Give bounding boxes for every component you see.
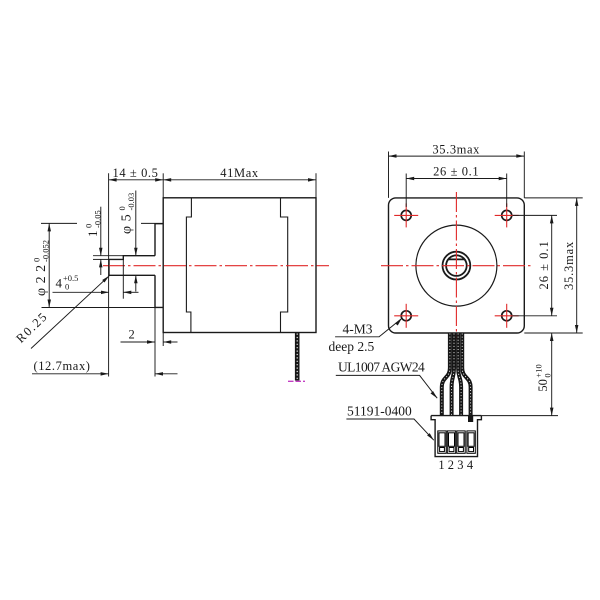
- svg-text:41Max: 41Max: [220, 166, 259, 180]
- svg-text:2: 2: [128, 327, 134, 341]
- ext 35.3 right bottom / 50 top: [524, 332, 582, 334]
- dim 1 upper tail: [100, 207, 102, 256]
- R0.25 text: [13, 309, 50, 346]
- R0.25 leader: [31, 276, 109, 349]
- svg-text:4-M3: 4-M3: [343, 321, 373, 336]
- connector 51191-0400: [431, 416, 481, 457]
- svg-text:3: 3: [457, 458, 463, 472]
- front view square: [389, 198, 525, 333]
- dim line 26 top: [406, 178, 507, 180]
- svg-text:0: 0: [543, 373, 553, 377]
- motor body outline (side view): [163, 198, 316, 333]
- svg-text:26 ± 0.1: 26 ± 0.1: [433, 165, 479, 179]
- ext 26 top: [405, 174, 407, 207]
- polarization tab: [468, 416, 473, 422]
- phi22 top ext segments: [41, 222, 77, 224]
- svg-text:14 ± 0.5: 14 ± 0.5: [112, 166, 158, 180]
- svg-text:0: 0: [65, 282, 69, 292]
- ext line flat top left: [93, 255, 123, 257]
- pin numbers: [438, 458, 474, 472]
- svg-text:(12.7max): (12.7max): [33, 359, 90, 373]
- ext 35.3 right top: [524, 197, 582, 199]
- svg-text:deep 2.5: deep 2.5: [329, 339, 375, 354]
- phi22 bottom ext: [42, 307, 156, 309]
- dim line 26 right: [551, 215, 553, 315]
- front view centerlines: [381, 192, 532, 339]
- dimension texts: [33, 142, 480, 372]
- svg-text:UL1007 AGW24: UL1007 AGW24: [338, 360, 425, 375]
- ext line body left bottom: [162, 333, 164, 347]
- ext line flat end: [122, 259, 124, 298]
- svg-text:1: 1: [85, 231, 100, 238]
- side view lead wire: [288, 333, 305, 382]
- ext line shaft tip: [108, 173, 110, 376]
- ext line boss face below: [154, 308, 156, 377]
- ext line body right top: [315, 173, 317, 198]
- shaft circle: [446, 255, 467, 276]
- terminal slots: [438, 431, 476, 453]
- 4-M3 leader: [335, 318, 402, 336]
- break mark magenta: [288, 380, 305, 382]
- mounting hole BR: [502, 311, 512, 321]
- 1 tolerance text: [84, 210, 103, 237]
- UL1007 leader: [336, 375, 437, 398]
- 35.3 right rotated: [562, 241, 576, 290]
- svg-text:4: 4: [467, 458, 474, 472]
- ext line flat step left: [93, 258, 109, 260]
- phi5 dim line lower: [135, 275, 137, 291]
- lead wires front view: [442, 333, 471, 415]
- svg-text:26 ± 0.1: 26 ± 0.1: [537, 240, 551, 289]
- svg-text:-0.03: -0.03: [126, 193, 136, 211]
- ext 35.3 top left: [388, 152, 390, 198]
- shaft outline: [109, 256, 155, 276]
- phi22 dim line: [48, 223, 50, 307]
- dim 4 left tail: [53, 291, 110, 293]
- hole cross BL: [394, 315, 418, 317]
- svg-text:51191-0400: 51191-0400: [347, 403, 412, 418]
- hole cross TR: [495, 214, 519, 216]
- ext 50 bottom: [481, 415, 558, 417]
- mounting hole TL: [401, 210, 411, 220]
- phi5 dim line upper: [135, 191, 137, 256]
- dim line 14 and 41: [109, 179, 316, 181]
- dim line 50: [551, 333, 553, 416]
- svg-text:φ5: φ5: [120, 210, 135, 234]
- mounting hole BL: [401, 311, 411, 321]
- mounting hole TR: [502, 210, 512, 220]
- ext 35.3 top right: [523, 152, 525, 198]
- hole cross TL: [394, 214, 418, 216]
- shaft flat chord: [448, 258, 465, 260]
- body left cap boundary: [186, 198, 191, 333]
- pilot boss phi22 outline: [155, 224, 163, 308]
- phi5 tolerance text: [117, 193, 136, 234]
- 50 tolerance rotated: [534, 364, 553, 391]
- svg-text:35.3max: 35.3max: [562, 241, 576, 290]
- ext line body left top: [162, 173, 164, 198]
- 51191 leader: [346, 419, 433, 440]
- svg-text:-0.052: -0.052: [41, 240, 51, 262]
- labels: [329, 321, 474, 472]
- hole cross BR: [495, 315, 519, 317]
- phi22 tolerance text: [32, 240, 51, 296]
- 4 tolerance text: [56, 273, 79, 292]
- dim 1 lower tail: [100, 259, 102, 275]
- svg-text:2: 2: [448, 458, 454, 472]
- body right cap boundary: [281, 198, 288, 333]
- svg-text:1: 1: [438, 458, 444, 472]
- svg-text:35.3max: 35.3max: [432, 142, 480, 156]
- dim 12.7 right tail: [155, 373, 178, 375]
- dim 2 left tail: [121, 341, 156, 343]
- svg-text:50: 50: [536, 379, 550, 392]
- svg-text:φ22: φ22: [34, 260, 49, 296]
- arrowheads: [48, 154, 579, 440]
- svg-text:4: 4: [56, 275, 63, 290]
- dim line 35.3 top: [389, 155, 525, 157]
- shaft boss ring outer: [443, 252, 471, 280]
- ext 26 right: [513, 214, 558, 216]
- 26 right rotated: [537, 240, 551, 289]
- pilot circle phi22: [416, 225, 497, 306]
- dim line 35.3 right: [576, 198, 578, 333]
- left view centerline: [103, 265, 329, 267]
- dim 2 right tail: [163, 341, 177, 343]
- dim 4 right tail: [123, 291, 138, 293]
- dim 12.7 left tail: [32, 373, 109, 375]
- svg-text:-0.05: -0.05: [93, 210, 103, 228]
